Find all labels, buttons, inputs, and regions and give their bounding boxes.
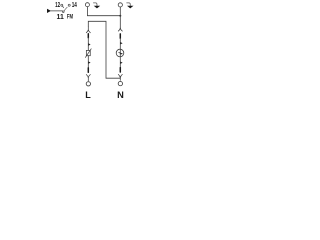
wire: top-left terminal down <box>86 7 88 16</box>
wire through gas discharge tube <box>119 49 121 68</box>
left branch socket fork bottom <box>86 75 90 82</box>
terminal circle N <box>118 81 122 85</box>
terminal circle L <box>86 82 90 86</box>
left branch plug pin bottom <box>87 68 89 72</box>
left branch socket fork top <box>86 27 90 33</box>
svg-text:12: 12 <box>55 2 60 9</box>
remote contact FM: fixed contact circle 12 <box>61 4 63 6</box>
right branch plug pin bottom <box>119 68 121 72</box>
right branch socket fork top <box>118 28 122 31</box>
wire: top-right terminal down <box>119 7 121 28</box>
wire: top bus <box>87 15 120 17</box>
remote contact FM: fixed contact circle 14 <box>68 4 70 6</box>
plug direction arrow left <box>93 3 97 6</box>
svg-text:11: 11 <box>57 14 64 21</box>
wire: right branch upper <box>119 38 121 49</box>
wire: left branch lower <box>87 56 89 68</box>
wire: left branch upper <box>87 38 89 51</box>
right branch socket fork bottom <box>118 74 122 80</box>
thermal disconnect marker lower right <box>120 62 122 64</box>
gas discharge tube electrodes <box>119 51 121 53</box>
svg-text:N: N <box>117 90 124 100</box>
remote contact FM: signal arrow <box>47 9 51 13</box>
plug direction arrow right <box>127 3 131 6</box>
terminal circle top-left <box>85 3 89 7</box>
right branch plug pin top <box>119 34 121 38</box>
remote contact FM: switch lever <box>64 7 67 11</box>
svg-text:FM: FM <box>67 13 74 20</box>
wire: inner link from left branch to N <box>88 21 120 78</box>
svg-text:L: L <box>85 90 91 100</box>
varistor box <box>86 50 90 55</box>
remote contact FM: contact 12 stub <box>63 6 64 8</box>
remote contact FM: signal wire <box>51 10 63 12</box>
left branch plug pin top <box>87 34 89 38</box>
junction dot <box>119 15 121 17</box>
svg-text:14: 14 <box>72 2 77 9</box>
thermal disconnect marker lower left <box>88 61 90 63</box>
remote contact FM: common pivot 11 <box>62 11 64 13</box>
varistor diagonal <box>85 49 91 58</box>
thermal disconnect marker upper right <box>120 42 122 44</box>
terminal circle top-right <box>118 3 122 7</box>
gas discharge tube circle <box>116 49 124 57</box>
thermal disconnect marker upper left <box>88 43 90 45</box>
